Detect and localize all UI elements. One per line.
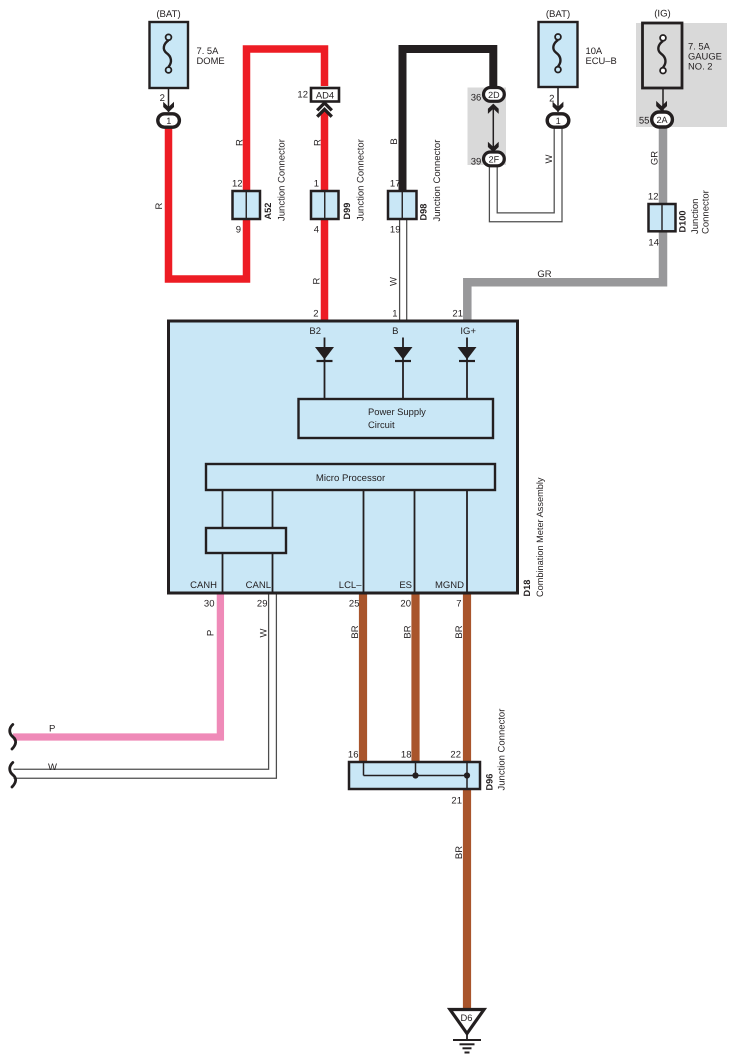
ground symbol (453, 1034, 481, 1053)
wire label R (A52 column) (234, 139, 245, 146)
svg-text:30: 30 (204, 599, 215, 610)
svg-text:Junction Connector: Junction Connector (277, 139, 288, 221)
oval terminal 1 (ECU-B) (547, 114, 569, 127)
svg-text:21: 21 (451, 796, 462, 807)
combination meter assembly box D18 (169, 321, 546, 597)
wire label W (D98 to meter) (389, 277, 400, 286)
junction connector D96 (348, 709, 508, 807)
meter internal labels B2 B IG+ (309, 326, 476, 337)
wire label BR (ground run) (454, 846, 465, 859)
svg-text:(BAT): (BAT) (546, 9, 570, 20)
svg-text:Circuit: Circuit (368, 419, 395, 430)
diode at B (394, 338, 413, 400)
internal line MGND (466, 490, 468, 592)
svg-text:LCL–: LCL– (339, 580, 362, 591)
svg-text:BR: BR (454, 625, 465, 638)
svg-text:ECU–B: ECU–B (586, 55, 617, 66)
svg-text:B: B (389, 138, 400, 144)
oval terminal 2A (652, 112, 673, 127)
double chevron page link under AD4 (317, 103, 332, 117)
svg-text:BR: BR (454, 846, 465, 859)
wire label W (pin 29) (259, 628, 270, 637)
svg-text:1: 1 (166, 116, 171, 126)
svg-text:Junction Connector: Junction Connector (497, 709, 508, 791)
wire label GR (horizontal run) (537, 269, 551, 280)
svg-text:Power Supply: Power Supply (368, 406, 426, 417)
svg-text:A52: A52 (263, 203, 273, 220)
svg-text:(BAT): (BAT) (156, 9, 180, 20)
svg-text:18: 18 (401, 750, 412, 761)
pin 1 label above meter (392, 309, 397, 320)
junction connector D99 (311, 139, 367, 235)
svg-text:4: 4 (314, 225, 319, 236)
diode at IG+ (458, 338, 477, 400)
svg-text:GR: GR (649, 151, 660, 165)
svg-text:7: 7 (456, 599, 461, 610)
svg-text:1: 1 (314, 179, 319, 190)
connector AD4 to other page (297, 88, 339, 102)
arrow into oval 1 (DOME) (163, 102, 174, 112)
svg-text:2D: 2D (488, 90, 500, 100)
wire R from junction A52 to connector AD4 (247, 49, 325, 192)
svg-text:22: 22 (450, 750, 461, 761)
svg-text:ES: ES (399, 580, 412, 591)
wire label W (ECU-B column) (544, 154, 555, 163)
wire label B (black wire) (389, 138, 400, 144)
wire label P (pin 30) (206, 630, 217, 636)
internal line ES (414, 490, 416, 592)
micro processor block (206, 464, 495, 490)
svg-text:12: 12 (648, 192, 659, 203)
svg-text:IG+: IG+ (460, 326, 476, 337)
svg-text:BR: BR (350, 625, 361, 638)
svg-text:36: 36 (471, 92, 482, 103)
svg-text:P: P (49, 724, 55, 735)
svg-text:2: 2 (313, 309, 318, 320)
label P on horizontal wire (49, 724, 55, 735)
wire B black from 2D to junction D98 (403, 49, 494, 193)
label W on horizontal wire (48, 762, 57, 773)
wire label BR (pin 7) (454, 625, 465, 638)
svg-text:21: 21 (452, 309, 463, 320)
ground connector D6 (450, 1010, 484, 1034)
wire W (white, double line) from meter pin 29 to left break (14, 593, 277, 779)
svg-text:14: 14 (648, 238, 659, 249)
break symbol on W wire (10, 763, 16, 788)
svg-text:R: R (154, 202, 165, 209)
svg-text:Junction: Junction (690, 199, 701, 234)
svg-text:20: 20 (400, 599, 411, 610)
svg-text:17: 17 (390, 179, 401, 190)
svg-text:1: 1 (556, 116, 561, 126)
oval terminal 2D (471, 88, 505, 104)
svg-text:P: P (206, 630, 217, 636)
svg-text:D96: D96 (485, 774, 495, 791)
wire label GR (right column) (649, 151, 660, 165)
junction connector D100 (648, 190, 712, 248)
svg-text:D100: D100 (678, 211, 688, 233)
svg-text:16: 16 (348, 750, 359, 761)
svg-text:9: 9 (236, 225, 241, 236)
wire P pink from meter pin 30 to left break (13, 593, 220, 738)
svg-text:NO. 2: NO. 2 (688, 61, 713, 72)
svg-text:39: 39 (471, 156, 482, 167)
svg-text:CANH: CANH (190, 580, 217, 591)
arrow into oval 1 (ECU-B) (553, 102, 564, 112)
svg-text:D6: D6 (461, 1012, 473, 1023)
svg-text:19: 19 (390, 225, 401, 236)
svg-text:AD4: AD4 (316, 90, 334, 101)
svg-text:Combination Meter Assembly: Combination Meter Assembly (535, 477, 545, 597)
svg-text:D18: D18 (522, 580, 532, 597)
svg-text:DOME: DOME (197, 55, 225, 66)
svg-text:W: W (544, 154, 555, 163)
svg-text:R: R (312, 277, 323, 284)
svg-text:R: R (312, 139, 323, 146)
svg-text:Junction Connector: Junction Connector (356, 139, 367, 221)
fuse DOME 7.5A (150, 9, 225, 112)
svg-text:(IG): (IG) (654, 9, 671, 20)
wire label R (D99 column above) (312, 139, 323, 146)
svg-text:W: W (259, 628, 270, 637)
svg-text:W: W (48, 762, 57, 773)
double-headed arrow between 2D and 2F (488, 104, 499, 153)
wire label R (fuse DOME column) (154, 202, 165, 209)
svg-text:D98: D98 (419, 204, 429, 221)
power supply circuit block (299, 399, 494, 438)
arrow into oval 2A (656, 101, 667, 111)
pin 2 label above meter (313, 309, 318, 320)
svg-text:Connector: Connector (701, 190, 712, 234)
svg-text:2A: 2A (656, 115, 667, 125)
svg-text:W: W (389, 277, 400, 286)
internal line CANH (222, 490, 224, 592)
internal line LCL (363, 490, 365, 592)
wire label BR (pin 25) (350, 625, 361, 638)
wire R from AD4 through D99 to meter pin 2 (321, 112, 329, 322)
wire label R (D99 to meter) (312, 277, 323, 284)
svg-text:55: 55 (639, 116, 650, 127)
CAN transceiver block (206, 528, 286, 553)
meter bottom pin numbers (204, 599, 462, 610)
svg-text:12: 12 (297, 90, 308, 101)
wire R from fuse DOME to junction A52 (169, 125, 247, 279)
svg-text:29: 29 (257, 599, 268, 610)
wire W (white, double line) from 2F to ECU-B oval 1 (489, 127, 562, 222)
svg-text:D99: D99 (342, 203, 352, 220)
wire GR from 2A oval through D100 to meter pin 21 (467, 126, 663, 322)
wire BR from meter pin 25 to D96 (359, 593, 367, 764)
svg-text:B2: B2 (309, 326, 321, 337)
junction connector D98 (388, 140, 443, 236)
break symbol on P wire (10, 725, 16, 750)
wire BR from meter pin 7 to D96 (463, 593, 471, 764)
meter bottom pin names (190, 580, 464, 591)
shaded block behind 2D/2F connectors (468, 88, 507, 166)
svg-text:2: 2 (160, 93, 165, 104)
svg-text:GR: GR (537, 269, 551, 280)
svg-text:1: 1 (392, 309, 397, 320)
diode at B2 (315, 338, 334, 400)
svg-text:BR: BR (402, 625, 413, 638)
svg-text:2F: 2F (489, 155, 500, 165)
oval terminal 2F (471, 152, 505, 167)
wire label BR (pin 20) (402, 625, 413, 638)
pin 21 label above meter (452, 309, 463, 320)
shaded block behind IG fuse (636, 23, 727, 127)
svg-text:MGND: MGND (435, 580, 464, 591)
internal line CANL (272, 490, 274, 592)
wire BR from D96 pin 21 to ground D6 (463, 789, 471, 1010)
fuse GAUGE NO.2 7.5A (IG) (639, 9, 722, 127)
wire BR from meter pin 20 to D96 (411, 593, 419, 764)
svg-text:12: 12 (232, 179, 243, 190)
svg-text:25: 25 (349, 599, 360, 610)
svg-text:B: B (392, 326, 398, 337)
fuse ECU-B 10A (539, 9, 617, 112)
oval terminal 1 (DOME) (158, 114, 180, 127)
wire W (white, double line) from D98 pin 19 to meter pin 1 (400, 220, 407, 321)
svg-text:Junction Connector: Junction Connector (432, 140, 443, 222)
svg-text:R: R (234, 139, 245, 146)
junction connector A52 (232, 139, 287, 235)
svg-text:CANL: CANL (246, 580, 271, 591)
svg-text:Micro Processor: Micro Processor (316, 473, 386, 484)
